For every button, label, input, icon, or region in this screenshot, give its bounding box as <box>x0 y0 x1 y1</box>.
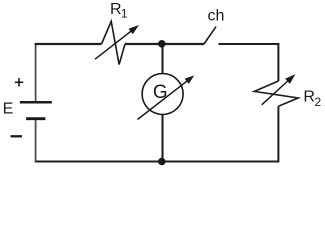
wire: switch to top-right corner down to R2 <box>219 44 279 81</box>
resistor R2 (variable) zigzag <box>254 81 298 106</box>
svg-text:E: E <box>3 100 14 117</box>
switch ch (open blade) <box>204 27 216 44</box>
arrow through R1 <box>95 25 139 59</box>
wire: bottom junction to bottom-left corner <box>35 160 162 162</box>
label - (battery negative) <box>11 135 23 137</box>
wire: R2 down, bottom-right corner, along bottom to junction <box>162 106 279 161</box>
arrow through G <box>138 75 195 119</box>
resistor R1 (variable) zigzag <box>102 21 126 64</box>
svg-text:R: R <box>110 1 122 18</box>
label R2 <box>303 89 321 110</box>
galvanometer G circle <box>142 74 183 115</box>
label R1 <box>110 1 128 20</box>
svg-text:ch: ch <box>208 8 225 25</box>
svg-text:R: R <box>303 89 315 106</box>
wire: galvanometer down to bottom junction <box>162 114 164 162</box>
svg-text:2: 2 <box>315 95 322 109</box>
wire: top-left corner to R1 <box>35 43 102 45</box>
battery E: long positive plate <box>20 101 52 104</box>
arrow through R2 <box>262 74 296 105</box>
svg-text:G: G <box>153 82 168 103</box>
svg-text:1: 1 <box>121 6 128 20</box>
wire: bottom-left corner up to battery negative plate <box>35 119 37 162</box>
wire: battery positive plate up left side <box>35 43 37 102</box>
wire: R1 to switch <box>125 43 204 45</box>
wire: top junction down to galvanometer <box>162 44 164 74</box>
label + (battery positive) <box>15 78 23 86</box>
node: top junction <box>158 40 166 48</box>
node: bottom junction <box>158 158 166 166</box>
battery E: short negative plate <box>26 117 45 120</box>
